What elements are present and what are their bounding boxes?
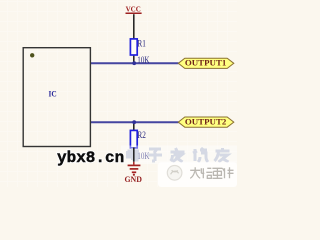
svg-text:10K: 10K — [137, 55, 149, 66]
svg-text:VCC: VCC — [126, 4, 141, 13]
svg-text:OUTPUT1: OUTPUT1 — [185, 58, 227, 68]
svg-text:OUTPUT2: OUTPUT2 — [185, 117, 227, 127]
svg-text:GND: GND — [124, 174, 142, 184]
svg-text:R1: R1 — [137, 38, 146, 48]
svg-text:R2: R2 — [137, 130, 146, 140]
svg-text:ybx8.cn: ybx8.cn — [57, 149, 124, 167]
svg-text:IC: IC — [49, 88, 57, 98]
